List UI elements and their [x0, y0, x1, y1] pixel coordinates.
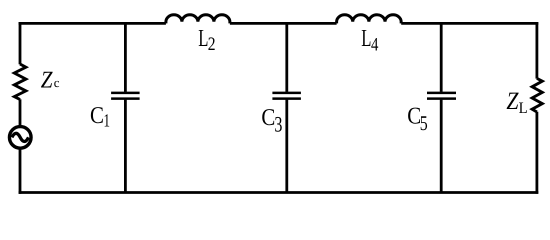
svg-text:4: 4: [371, 34, 379, 55]
wire top-left segment (source node to L2): [19, 22, 166, 25]
svg-text:Z: Z: [506, 88, 519, 115]
svg-text:L: L: [519, 100, 528, 117]
wire C3 branch upper: [285, 23, 288, 92]
source V1 circle: [9, 127, 31, 149]
svg-text:2: 2: [208, 34, 216, 55]
wire top-right segment (L4 to load node): [401, 22, 538, 25]
svg-text:3: 3: [274, 112, 282, 137]
svg-text:c: c: [54, 75, 60, 90]
label L2: [198, 25, 215, 55]
wire bottom rail: [19, 191, 539, 194]
capacitor C1 plates: [111, 93, 140, 99]
label ZL: [506, 88, 527, 117]
wire C3 branch lower: [285, 100, 288, 193]
svg-text:5: 5: [420, 111, 428, 135]
wire C5 branch lower: [440, 100, 443, 193]
svg-text:1: 1: [104, 111, 110, 131]
wire source to bottom rail: [19, 148, 22, 194]
svg-text:C: C: [261, 105, 275, 131]
svg-text:C: C: [90, 103, 104, 129]
capacitor C3 plates: [272, 93, 301, 99]
wire right vertical lower (ZL to bottom rail): [536, 112, 539, 194]
label Zc: [41, 67, 60, 93]
label C3: [261, 105, 282, 137]
resistor Zc: [14, 64, 26, 100]
wire C1 branch lower: [124, 100, 127, 193]
wire Zc to source: [19, 99, 22, 127]
resistor ZL: [532, 78, 542, 112]
source V1 sine wave: [12, 133, 29, 141]
capacitor C5 plates: [427, 93, 456, 99]
wire C5 branch upper: [440, 23, 443, 92]
label C1: [90, 103, 110, 132]
svg-text:Z: Z: [41, 67, 53, 93]
inductor L2: [166, 15, 230, 24]
label C5: [407, 103, 427, 135]
wire top-middle segment (L2 to L4): [230, 22, 337, 25]
svg-text:L: L: [361, 25, 371, 52]
wire left vertical upper (top node to Zc): [19, 22, 22, 64]
wire right vertical upper (top node to ZL): [536, 22, 539, 79]
inductor L4: [337, 15, 402, 24]
label L4: [361, 25, 379, 55]
wire C1 branch upper: [124, 23, 127, 92]
